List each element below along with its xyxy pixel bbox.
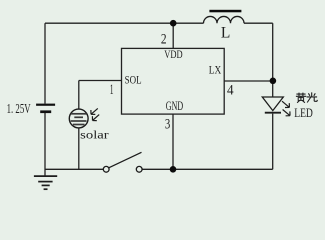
wire pin 4 stub LX <box>224 80 273 82</box>
battery B1 long plate <box>36 104 55 106</box>
wire battery bottom to ground <box>44 113 46 176</box>
svg-text:2: 2 <box>161 32 167 48</box>
label huang-guang (yellow light) <box>296 92 317 102</box>
svg-text:VDD: VDD <box>164 47 183 61</box>
wire LED cathode down to bottom wire <box>272 114 274 170</box>
svg-text:GND: GND <box>166 98 183 113</box>
solar cell body <box>69 109 88 128</box>
wire pin 1 stub SOL <box>79 80 122 82</box>
switch S1 left contact <box>103 166 109 172</box>
inductor L core bar <box>209 10 241 13</box>
wire top-right from inductor to right corner <box>244 22 273 24</box>
LED D1 cathode bar <box>265 112 281 114</box>
node junction dot top (VDD tap) <box>170 20 177 27</box>
svg-text:LED: LED <box>294 106 313 120</box>
wire right vertical down to LED <box>272 23 274 97</box>
svg-text:L: L <box>221 24 230 41</box>
svg-text:4: 4 <box>227 83 234 99</box>
wire pin 3 stub GND <box>172 114 174 169</box>
wire pin 2 stub VDD <box>172 23 174 48</box>
node junction dot right (LX/LED tap) <box>270 78 277 85</box>
switch S1 lever <box>109 152 142 167</box>
wire solar bottom to bottom wire <box>78 128 80 169</box>
ground <box>34 176 57 189</box>
svg-text:SOL: SOL <box>125 73 142 87</box>
svg-text:1: 1 <box>110 82 114 98</box>
switch S1 right contact <box>136 166 142 172</box>
wire top-left from battery to inductor <box>45 22 204 24</box>
LED light arrow lower <box>283 110 290 116</box>
wire bottom-left segment to switch <box>45 168 103 170</box>
LED light arrow upper <box>282 101 290 116</box>
node junction dot bottom (GND tap) <box>170 166 177 173</box>
inductor L humps <box>204 16 245 23</box>
LED D1 triangle <box>262 97 283 111</box>
op-amp U1 IC body <box>122 48 225 114</box>
wire battery top vertical <box>44 23 46 103</box>
svg-text:3: 3 <box>165 116 170 132</box>
battery B1 short plate <box>40 110 51 113</box>
solar light arrow lower <box>92 115 99 121</box>
svg-text:1. 25V: 1. 25V <box>7 101 31 116</box>
wire bottom-right segment from switch to LED <box>142 168 273 170</box>
wire solar top to pin1 stub <box>78 81 80 110</box>
solar light arrow upper <box>91 108 99 120</box>
svg-text:LX: LX <box>209 63 222 77</box>
svg-text:solar: solar <box>80 128 109 142</box>
